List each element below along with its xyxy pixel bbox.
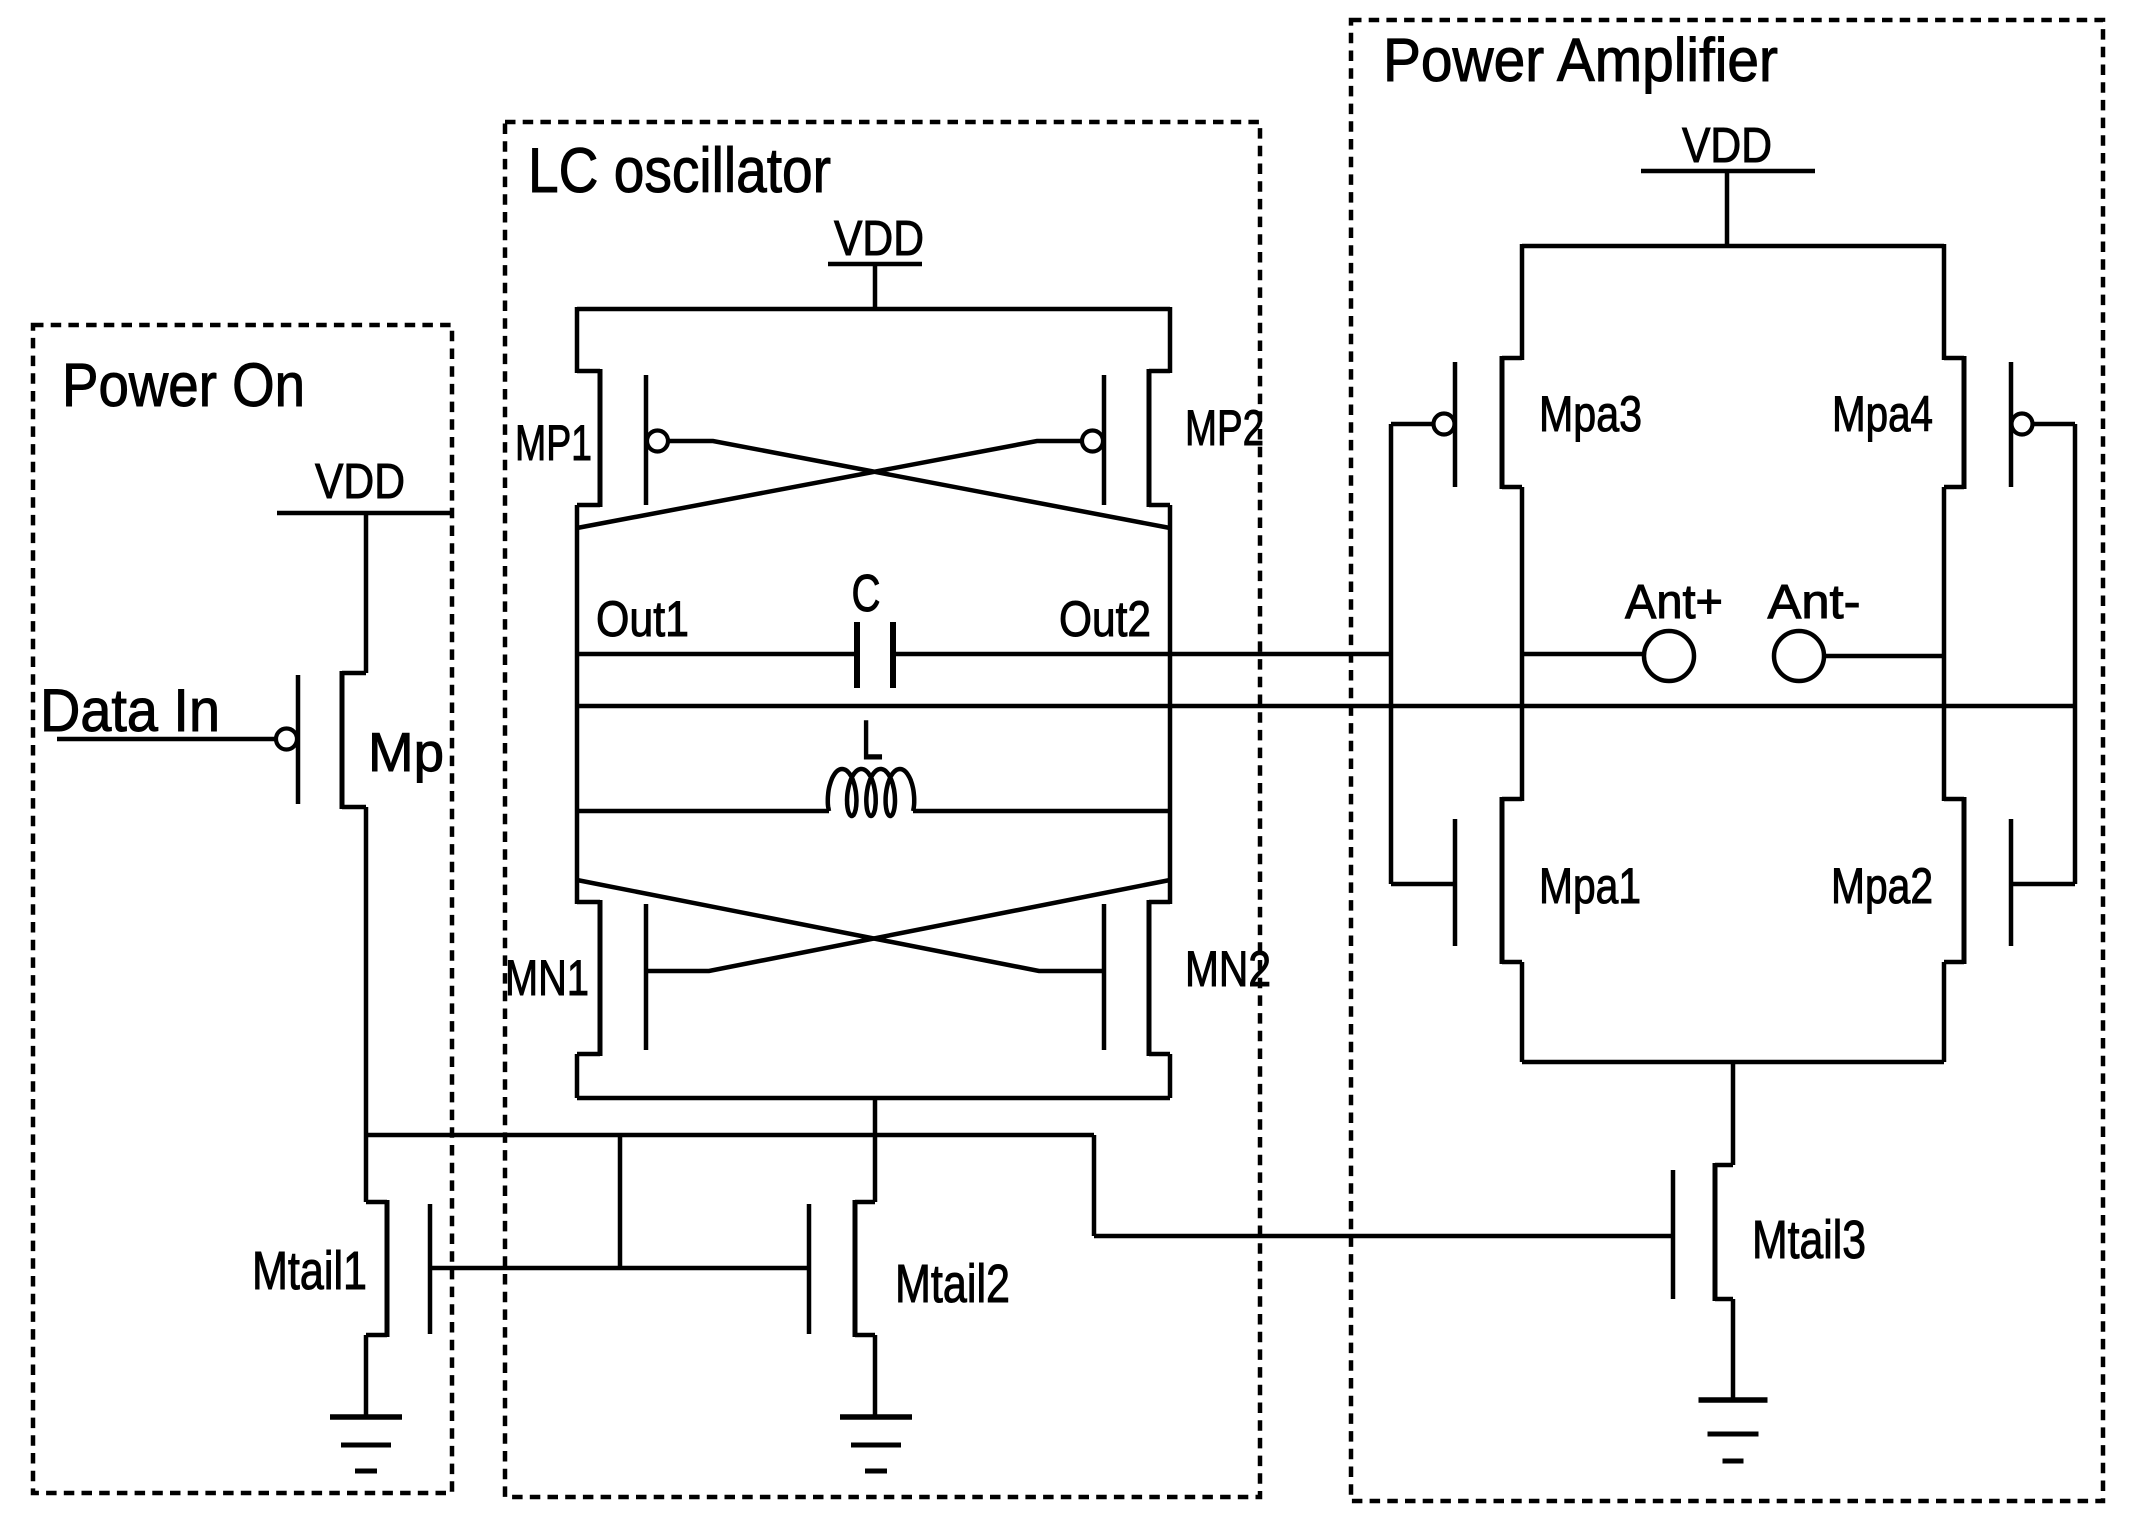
svg-text:Mpa4: Mpa4 — [1832, 386, 1933, 442]
svg-text:LC oscillator: LC oscillator — [528, 136, 831, 206]
svg-text:Mtail2: Mtail2 — [895, 1254, 1010, 1314]
svg-text:MP2: MP2 — [1185, 400, 1264, 456]
svg-text:Power Amplifier: Power Amplifier — [1383, 26, 1778, 94]
svg-text:C: C — [852, 565, 881, 623]
svg-text:Mp: Mp — [368, 721, 444, 783]
svg-text:Mtail3: Mtail3 — [1752, 1210, 1866, 1270]
svg-text:L: L — [861, 708, 883, 771]
svg-text:MP1: MP1 — [515, 415, 592, 471]
svg-text:Out1: Out1 — [596, 591, 689, 647]
svg-text:MN2: MN2 — [1185, 941, 1271, 997]
svg-text:VDD: VDD — [834, 212, 924, 266]
svg-text:Mpa2: Mpa2 — [1831, 858, 1933, 914]
svg-text:VDD: VDD — [315, 455, 405, 509]
svg-text:Data In: Data In — [40, 677, 220, 744]
svg-text:Mtail1: Mtail1 — [252, 1241, 367, 1301]
svg-text:VDD: VDD — [1682, 119, 1772, 173]
svg-text:MN1: MN1 — [505, 950, 589, 1006]
svg-text:Out2: Out2 — [1059, 591, 1151, 647]
svg-text:Ant-: Ant- — [1768, 576, 1861, 629]
svg-text:Ant+: Ant+ — [1625, 576, 1723, 629]
svg-text:Power On: Power On — [62, 351, 305, 419]
svg-text:Mpa3: Mpa3 — [1539, 386, 1642, 442]
svg-text:Mpa1: Mpa1 — [1539, 858, 1641, 914]
